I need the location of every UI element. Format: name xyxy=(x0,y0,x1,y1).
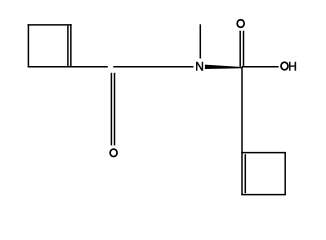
svg-text:N: N xyxy=(195,60,204,74)
svg-text:H: H xyxy=(288,59,297,73)
